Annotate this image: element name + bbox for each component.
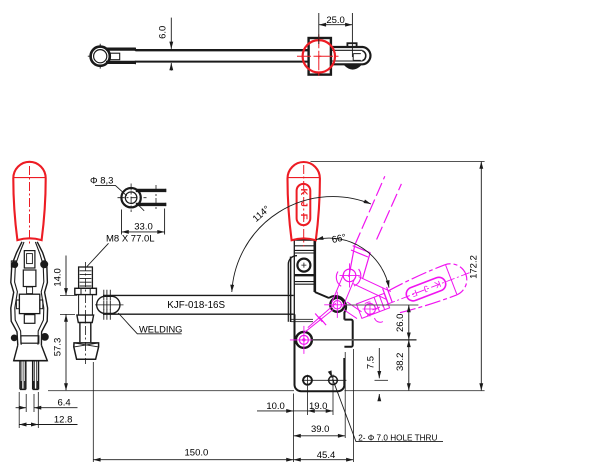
dim 172.2 xyxy=(480,162,482,391)
top view red grip circle xyxy=(297,34,341,78)
top view left ring inner xyxy=(94,50,107,63)
svg-text:7.5: 7.5 xyxy=(365,356,376,369)
114 deg arc xyxy=(232,197,371,292)
dim 172.2 extension top xyxy=(311,161,485,163)
welded boss stadium xyxy=(97,296,120,313)
side view pivot dot left lower xyxy=(12,335,17,340)
side view left prong xyxy=(20,361,26,389)
dim 57.3 xyxy=(65,314,67,390)
dim 26.0 extension bottom / 38.2 top xyxy=(312,339,416,341)
top view right clevis inner cap arc xyxy=(362,51,365,61)
top view slide block rect xyxy=(309,38,331,75)
side view arm level tabs xyxy=(16,300,19,309)
svg-text:2- Φ 7.0 HOLE THRU: 2- Φ 7.0 HOLE THRU xyxy=(358,434,437,443)
top view right clevis slot lines xyxy=(353,54,361,61)
open spindle hex dashes xyxy=(365,302,372,316)
arm pivot circle xyxy=(296,332,312,348)
top view right clevis inner lines xyxy=(331,50,363,61)
slide link collar ticks xyxy=(315,314,326,326)
svg-text:39.0: 39.0 xyxy=(311,424,330,435)
hole centerline xyxy=(313,379,347,381)
right tab xyxy=(344,320,352,347)
clevis prong lower xyxy=(136,203,166,206)
spindle threaded rod xyxy=(79,267,93,288)
grip collar xyxy=(383,287,393,304)
handle centerline xyxy=(303,165,305,247)
dim 14.0 xyxy=(65,256,67,296)
left flange xyxy=(288,256,297,295)
svg-text:150.0: 150.0 xyxy=(185,447,209,458)
side view pivot dot right lower xyxy=(42,334,48,340)
body: slide bar xyxy=(288,240,352,392)
KJF oval logo xyxy=(297,184,311,225)
baseline extension left xyxy=(48,390,294,392)
top view washer filled crescent xyxy=(344,64,361,69)
svg-text:12.8: 12.8 xyxy=(54,415,73,426)
side view red grip xyxy=(13,162,45,246)
dim 10.0 xyxy=(308,386,334,415)
top view red grip crosshair xyxy=(297,34,341,78)
clevis ring inner xyxy=(125,192,137,204)
spindle rubber foot xyxy=(74,343,99,359)
spindle centerline xyxy=(85,262,87,364)
top view right clevis top bump xyxy=(347,43,356,47)
svg-text:6.4: 6.4 xyxy=(58,398,71,409)
open arm shaft edges xyxy=(349,245,371,279)
open handle shaft to grip xyxy=(353,277,391,300)
svg-text:38.2: 38.2 xyxy=(395,353,406,372)
svg-text:19.0: 19.0 xyxy=(309,401,328,412)
open arm dashed lines at 66 deg xyxy=(355,176,385,245)
open arm collar xyxy=(351,246,370,257)
svg-text:172.2: 172.2 xyxy=(469,255,480,279)
open foot arc xyxy=(375,318,383,322)
top view right clevis outline with round cap xyxy=(331,47,371,64)
knee magenta cross xyxy=(333,301,341,309)
dim 6.4 xyxy=(19,392,38,428)
slide link lines xyxy=(304,303,336,332)
knee pivot fillet xyxy=(329,296,346,320)
arm pivot magenta cross xyxy=(299,335,308,344)
top view left clevis lower bar xyxy=(106,61,135,64)
open spindle circle xyxy=(365,304,376,315)
dim 12.8 xyxy=(19,424,38,426)
side view right prong xyxy=(33,361,39,389)
upper pivot circle xyxy=(297,259,310,272)
66 deg arc xyxy=(316,238,389,288)
side view pivot dot left upper xyxy=(12,262,17,267)
clevis prong upper xyxy=(136,189,166,192)
open handle grip (rotated copy of red grip) xyxy=(367,258,476,326)
svg-text:10.0: 10.0 xyxy=(266,401,285,412)
svg-text:WELDING: WELDING xyxy=(139,324,182,334)
dim 6.0 xyxy=(170,18,172,71)
side view pivot dot right upper xyxy=(41,261,48,268)
mounting hole 2 xyxy=(329,376,338,385)
svg-text:26.0: 26.0 xyxy=(395,314,406,333)
spindle shank xyxy=(80,323,91,343)
svg-text:33.0: 33.0 xyxy=(134,221,153,232)
weld tick marks xyxy=(104,290,111,300)
front red handle grip xyxy=(288,162,320,247)
open arm lower edges near knee xyxy=(344,302,362,319)
top view left clevis upper bar xyxy=(106,47,135,50)
dim 150.0 / 45.4 extensions xyxy=(93,349,353,462)
side view inner rect stack xyxy=(24,251,35,268)
svg-text:M8 X 77.0L: M8 X 77.0L xyxy=(106,234,155,245)
boss centerline xyxy=(95,304,124,306)
spindle rod through arm xyxy=(79,295,93,315)
side view base trapezoid xyxy=(14,345,48,361)
arm bar xyxy=(95,290,294,320)
mounting hole 1 xyxy=(303,376,312,385)
dim 26.0 xyxy=(408,305,410,340)
elbow to knee link xyxy=(332,273,355,307)
open spindle cluster rect xyxy=(356,293,389,318)
dim 33.0 xyxy=(122,209,165,235)
svg-text:KJF-018-16S: KJF-018-16S xyxy=(167,300,225,311)
top view left ring centerline ticks xyxy=(88,44,100,69)
spindle hex nut upper xyxy=(75,288,97,294)
svg-text:57.3: 57.3 xyxy=(53,338,64,357)
dim 39.0 xyxy=(344,352,346,438)
top view left clevis slot rect xyxy=(110,53,120,60)
spindle hex nut lower xyxy=(77,315,94,322)
dim 38.2 xyxy=(408,340,410,391)
hole leader xyxy=(330,372,332,378)
dim 25.0 xyxy=(319,13,353,57)
clevis crosshairs xyxy=(118,184,147,213)
svg-text:25.0: 25.0 xyxy=(326,15,345,26)
side view linkage outline xyxy=(11,242,48,390)
knee pivot circle xyxy=(330,298,344,312)
clevis ring outer xyxy=(121,188,140,207)
body lower plate xyxy=(295,314,345,391)
dim 26.0 extension top xyxy=(346,304,418,306)
dim 45.4 xyxy=(294,459,354,461)
baseline extension right xyxy=(345,390,485,392)
top view left clevis step xyxy=(134,48,136,65)
svg-text:Φ 8,3: Φ 8,3 xyxy=(90,176,113,187)
svg-text:14.0: 14.0 xyxy=(53,268,64,287)
dim 19.0 xyxy=(308,410,334,412)
top view long bar bottom edge xyxy=(135,61,308,63)
dim 7.5 xyxy=(378,348,380,378)
svg-text:45.4: 45.4 xyxy=(317,450,336,461)
svg-text:6.0: 6.0 xyxy=(157,26,168,39)
top view left ring outer xyxy=(91,47,110,66)
open pivot circle xyxy=(343,269,356,282)
dim 150.0 xyxy=(93,459,293,461)
top view long bar top edge xyxy=(135,49,308,51)
